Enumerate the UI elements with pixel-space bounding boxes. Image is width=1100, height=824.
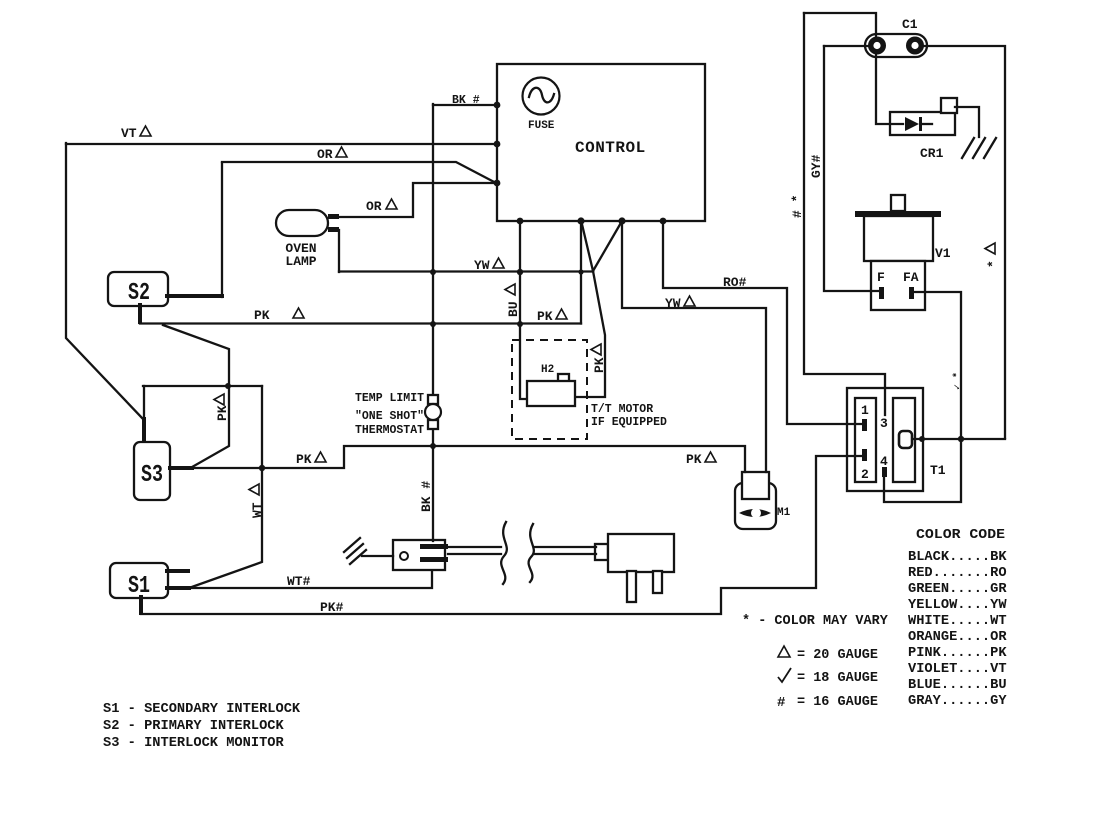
svg-text:PK: PK	[537, 309, 553, 324]
svg-text:ORANGE....OR: ORANGE....OR	[908, 630, 1007, 645]
svg-text:S1: S1	[128, 573, 150, 600]
svg-text:BU: BU	[506, 301, 521, 317]
svg-text:VIOLET....VT: VIOLET....VT	[908, 662, 1007, 677]
svg-text:OR: OR	[317, 147, 333, 162]
svg-text:BLACK.....BK: BLACK.....BK	[908, 550, 1007, 565]
svg-text:BK #: BK #	[452, 94, 480, 107]
svg-text:= 16 GAUGE: = 16 GAUGE	[797, 695, 878, 710]
svg-text:PK: PK	[686, 452, 702, 467]
svg-text:M1: M1	[777, 507, 791, 519]
svg-text:3: 3	[880, 416, 888, 431]
svg-text:"ONE SHOT": "ONE SHOT"	[355, 410, 424, 423]
svg-text:* - COLOR MAY VARY: * - COLOR MAY VARY	[742, 614, 889, 629]
svg-text:COLOR CODE: COLOR CODE	[916, 527, 1005, 543]
svg-text:CR1: CR1	[920, 146, 944, 161]
svg-text:PK: PK	[215, 405, 230, 421]
svg-text:T/T MOTOR: T/T MOTOR	[591, 403, 653, 416]
svg-text:✓ *: ✓ *	[952, 372, 964, 390]
svg-text:VT: VT	[121, 126, 137, 141]
svg-text:CONTROL: CONTROL	[575, 139, 646, 157]
svg-text:LAMP: LAMP	[285, 254, 316, 269]
svg-text:S1 - SECONDARY INTERLOCK: S1 - SECONDARY INTERLOCK	[103, 702, 301, 717]
svg-text:THERMOSTAT: THERMOSTAT	[355, 424, 424, 437]
svg-text:WT: WT	[250, 502, 265, 518]
svg-text:C1: C1	[902, 17, 918, 32]
svg-text:GREEN.....GR: GREEN.....GR	[908, 582, 1007, 597]
svg-text:S2: S2	[128, 280, 150, 307]
svg-text:RED.......RO: RED.......RO	[908, 566, 1007, 581]
svg-text:YW: YW	[474, 258, 490, 273]
svg-text:T1: T1	[930, 463, 946, 478]
svg-text:IF EQUIPPED: IF EQUIPPED	[591, 416, 667, 429]
svg-text:V1: V1	[935, 246, 951, 261]
svg-text:2: 2	[861, 467, 869, 482]
svg-text:= 20 GAUGE: = 20 GAUGE	[797, 648, 878, 663]
svg-text:= 18 GAUGE: = 18 GAUGE	[797, 671, 878, 686]
svg-text:BLUE......BU: BLUE......BU	[908, 678, 1007, 693]
svg-text:GY#: GY#	[809, 154, 824, 178]
svg-text:#: #	[777, 695, 785, 711]
svg-text:1: 1	[861, 403, 869, 418]
svg-text:PINK......PK: PINK......PK	[908, 646, 1007, 661]
svg-text:# *: # *	[790, 195, 805, 218]
svg-text:S2 - PRIMARY INTERLOCK: S2 - PRIMARY INTERLOCK	[103, 719, 284, 734]
svg-text:RO#: RO#	[723, 275, 747, 290]
svg-text:PK: PK	[296, 452, 312, 467]
svg-text:S3: S3	[141, 462, 163, 489]
svg-text:OR: OR	[366, 199, 382, 214]
svg-text:4: 4	[880, 454, 888, 469]
svg-text:YELLOW....YW: YELLOW....YW	[908, 598, 1007, 613]
svg-text:GRAY......GY: GRAY......GY	[908, 694, 1007, 709]
svg-text:TEMP LIMIT: TEMP LIMIT	[355, 392, 424, 405]
svg-text:H2: H2	[541, 364, 554, 376]
svg-text:WT#: WT#	[287, 574, 311, 589]
svg-text:FUSE: FUSE	[528, 120, 555, 132]
svg-text:S3 - INTERLOCK MONITOR: S3 - INTERLOCK MONITOR	[103, 736, 284, 751]
svg-text:YW: YW	[665, 296, 681, 311]
svg-text:PK#: PK#	[320, 600, 344, 615]
svg-text:WHITE.....WT: WHITE.....WT	[908, 614, 1007, 629]
svg-text:F: F	[877, 270, 885, 285]
svg-text:PK: PK	[592, 357, 607, 373]
svg-text:BK #: BK #	[419, 481, 434, 512]
svg-text:FA: FA	[903, 270, 919, 285]
svg-text:PK: PK	[254, 308, 270, 323]
svg-text:*: *	[986, 260, 1001, 268]
